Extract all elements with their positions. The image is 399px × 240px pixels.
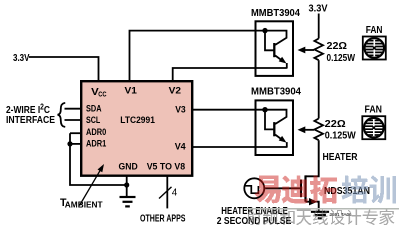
svg-text:CC: CC bbox=[98, 90, 107, 99]
wire V4 to Q2 emitter bbox=[192, 146, 287, 148]
svg-text:LTC2991: LTC2991 bbox=[120, 115, 155, 126]
wire pulse source to gate bbox=[264, 187, 301, 189]
wire V3 to Q2 collector/base bbox=[192, 109, 265, 111]
svg-text:ADR1: ADR1 bbox=[86, 139, 107, 150]
wire 3.3V supply to VCC bbox=[29, 57, 99, 80]
wire GND pin to ground bbox=[126, 176, 128, 196]
wire 3.3V rail to R1 bbox=[318, 14, 320, 39]
pin label V5 TO V8 bbox=[147, 162, 185, 173]
svg-text:3.3V: 3.3V bbox=[309, 3, 328, 15]
wire ADR1 stub bbox=[70, 143, 81, 145]
pin label GND bbox=[119, 162, 138, 173]
label 0.125W (R1) bbox=[327, 52, 356, 64]
svg-text:OTHER APPS: OTHER APPS bbox=[140, 213, 186, 224]
wire R2 to MOSFET drain bbox=[306, 140, 319, 176]
svg-text:2-WIRE I2C: 2-WIRE I2C bbox=[6, 103, 50, 117]
svg-text:22Ω: 22Ω bbox=[325, 118, 346, 130]
svg-text:0.125W: 0.125W bbox=[325, 129, 356, 141]
mosfet Q3 NDS351AN bbox=[301, 175, 319, 210]
label 2991 TA06 bbox=[330, 212, 352, 217]
svg-text:GND: GND bbox=[119, 162, 138, 173]
label 2-WIRE I2C INTERFACE bbox=[6, 103, 55, 127]
wire ADR0/ADR1 tie to ground bbox=[70, 133, 127, 185]
pin label VCC bbox=[91, 86, 107, 98]
svg-text:V5 TO V8: V5 TO V8 bbox=[147, 162, 185, 173]
wire ADR0 stub bbox=[70, 132, 81, 134]
svg-text:HEATER: HEATER bbox=[323, 151, 358, 163]
watermark red characters bbox=[255, 176, 338, 204]
pulse source heater enable bbox=[244, 178, 264, 198]
junction dot GND bbox=[124, 182, 129, 187]
label 0.125W (R2) bbox=[325, 129, 356, 141]
pin label V4 bbox=[175, 142, 187, 153]
wire SCL stub bbox=[65, 119, 82, 121]
label HEATER bbox=[323, 151, 358, 163]
resistor R2 22 ohm bbox=[314, 119, 323, 141]
svg-text:22Ω: 22Ω bbox=[327, 40, 348, 52]
arrow thermal coupling R2 to Q2 bbox=[298, 126, 315, 133]
ground (chip GND) bbox=[120, 197, 136, 206]
wire V1 to Q1 collector/base bbox=[130, 31, 266, 81]
fan icon 2 bbox=[362, 116, 385, 139]
svg-text:4: 4 bbox=[172, 187, 178, 198]
label 4 (bus width) bbox=[172, 187, 178, 198]
svg-text:V2: V2 bbox=[169, 86, 181, 97]
svg-text:FAN: FAN bbox=[366, 25, 383, 36]
label OTHER APPS bbox=[140, 213, 186, 224]
label 22 ohm (R1) bbox=[327, 40, 348, 52]
brace I2C bus bbox=[58, 103, 65, 127]
node 3.3V left supply label bbox=[13, 52, 30, 64]
fan icon 1 bbox=[363, 37, 386, 60]
pin label ADR1 bbox=[86, 139, 107, 150]
watermark blue characters bbox=[342, 176, 397, 204]
svg-text:FAN: FAN bbox=[365, 105, 383, 116]
pin label SCL bbox=[86, 115, 100, 126]
svg-text:MMBT3904: MMBT3904 bbox=[251, 7, 300, 19]
svg-text:SCL: SCL bbox=[86, 115, 100, 126]
junction dot ADR1 bbox=[67, 141, 72, 146]
svg-text:AMBIENT: AMBIENT bbox=[65, 200, 103, 209]
label HEATER ENABLE bbox=[221, 206, 288, 217]
svg-text:0.125W: 0.125W bbox=[327, 52, 356, 64]
label FAN (bottom) bbox=[365, 105, 383, 116]
arrow TAMBIENT internal sensor bbox=[80, 164, 105, 206]
watermark gray tagline bbox=[247, 210, 395, 226]
pin label V3 bbox=[175, 105, 186, 116]
node 3.3V right supply label bbox=[309, 3, 328, 15]
wire V2 to Q1 emitter bbox=[173, 68, 287, 81]
resistor R1 22 ohm bbox=[314, 39, 323, 61]
pin label V1 bbox=[125, 86, 138, 97]
svg-text:V1: V1 bbox=[125, 86, 138, 97]
svg-text:V4: V4 bbox=[175, 142, 187, 153]
transistor Q1 MMBT3904 (diode-connected NPN in box) bbox=[256, 21, 294, 76]
bus slash mark bbox=[159, 187, 172, 199]
IC LTC2991 body bbox=[81, 81, 192, 176]
pin label ADR0 bbox=[86, 127, 106, 138]
label MMBT3904 (Q1) bbox=[251, 7, 300, 19]
label LTC2991 bbox=[120, 115, 155, 126]
wire R1 to R2 bbox=[318, 60, 320, 118]
wire V5 TO V8 bus stub bbox=[166, 176, 168, 208]
svg-text:INTERFACE: INTERFACE bbox=[6, 115, 55, 126]
label 2 SECOND PULSE bbox=[217, 216, 292, 227]
label TAMBIENT bbox=[60, 197, 103, 209]
label NDS351AN bbox=[324, 185, 370, 197]
svg-text:MMBT3904: MMBT3904 bbox=[251, 86, 301, 98]
watermark underline bbox=[244, 208, 399, 210]
transistor Q2 MMBT3904 (diode-connected NPN in box) bbox=[256, 100, 294, 155]
svg-text:SDA: SDA bbox=[86, 104, 102, 115]
ground (mosfet source) bbox=[311, 212, 329, 219]
label 22 ohm (R2) bbox=[325, 118, 346, 130]
svg-text:V3: V3 bbox=[175, 105, 186, 116]
svg-text:ADR0: ADR0 bbox=[86, 127, 106, 138]
pin label V2 bbox=[169, 86, 181, 97]
arrow thermal coupling R1 to Q1 bbox=[298, 47, 315, 54]
label MMBT3904 (Q2) bbox=[251, 86, 301, 98]
label FAN (top) bbox=[366, 25, 383, 36]
wire SDA stub bbox=[65, 108, 82, 110]
pin label SDA bbox=[86, 104, 102, 115]
svg-text:3.3V: 3.3V bbox=[13, 52, 30, 64]
